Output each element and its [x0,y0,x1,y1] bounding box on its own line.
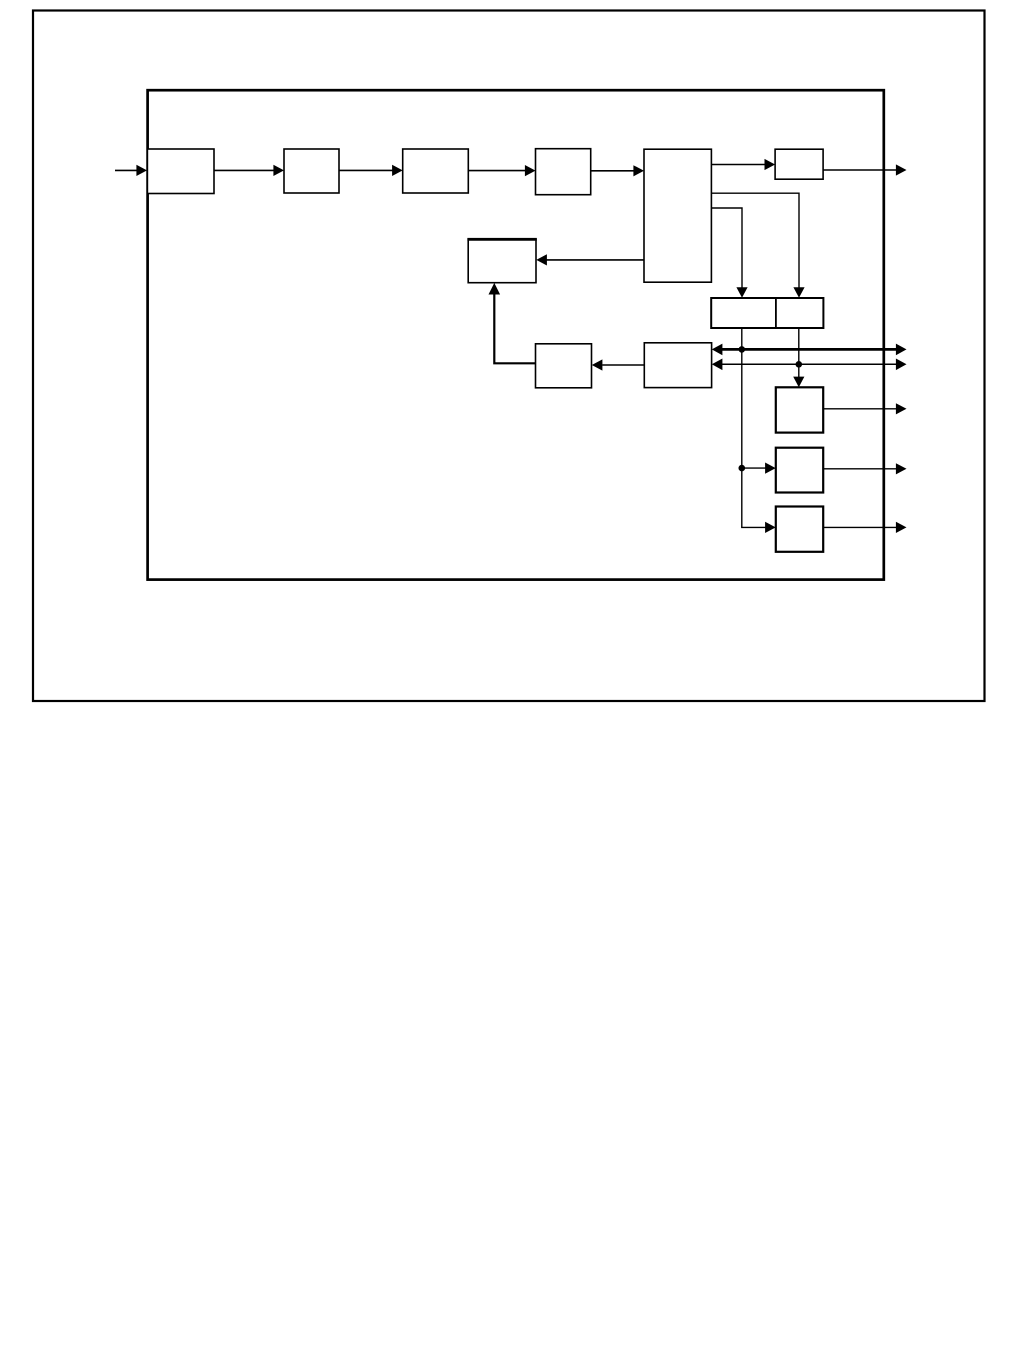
block B11 [776,387,823,432]
wire input arrow into block B1 [115,165,147,176]
bus line 2 (bidirectional) [712,359,907,371]
block B9 [536,344,592,388]
wire B13 output through frame [823,522,906,533]
block B1 [147,149,214,194]
wire B12 output through frame [823,463,906,474]
wire B3 to B4 [468,165,535,176]
inner diagram frame [148,90,884,579]
junction dot on bus 1 [739,346,746,353]
wire vertical from register left cell down [741,328,743,527]
wire B5 to block B7 (left arrow) [536,254,644,265]
junction dot on bus 2 [796,361,803,368]
block B4 [536,149,591,195]
wire B5 to register right cell (down arrow) [711,193,804,298]
block B7 [467,239,536,283]
wire B6 output through frame [823,164,906,175]
block B2 [284,149,339,193]
wire B1 to B2 [214,165,284,176]
junction dot at B12 branch [739,465,746,472]
wire B5 to register left cell (down arrow) [711,208,747,298]
wire B11 output through frame [823,403,906,414]
block B8 (double register) [711,298,823,328]
wire B4 to B5 [591,165,644,176]
wire B2 to B3 [339,165,403,176]
block B6 (output buffer) [775,149,823,179]
wire branch arrow into B12 [742,463,776,474]
block B10 [644,343,711,388]
bus line 1 (thick, bidirectional) [712,344,907,356]
wire B10 to B9 (left arrow) [592,359,645,370]
wire bottom turn arrow into B13 [741,522,776,533]
block B3 [403,149,469,193]
wire vertical from register right cell down into B11 [793,328,804,387]
wire B9 up into B7 (arrow up) [489,283,536,363]
block B12 [776,448,823,493]
block B5 (tall control block) [644,149,711,282]
wire B5 to B6 [711,159,775,170]
outer page border [33,11,985,702]
block B13 [776,507,823,552]
